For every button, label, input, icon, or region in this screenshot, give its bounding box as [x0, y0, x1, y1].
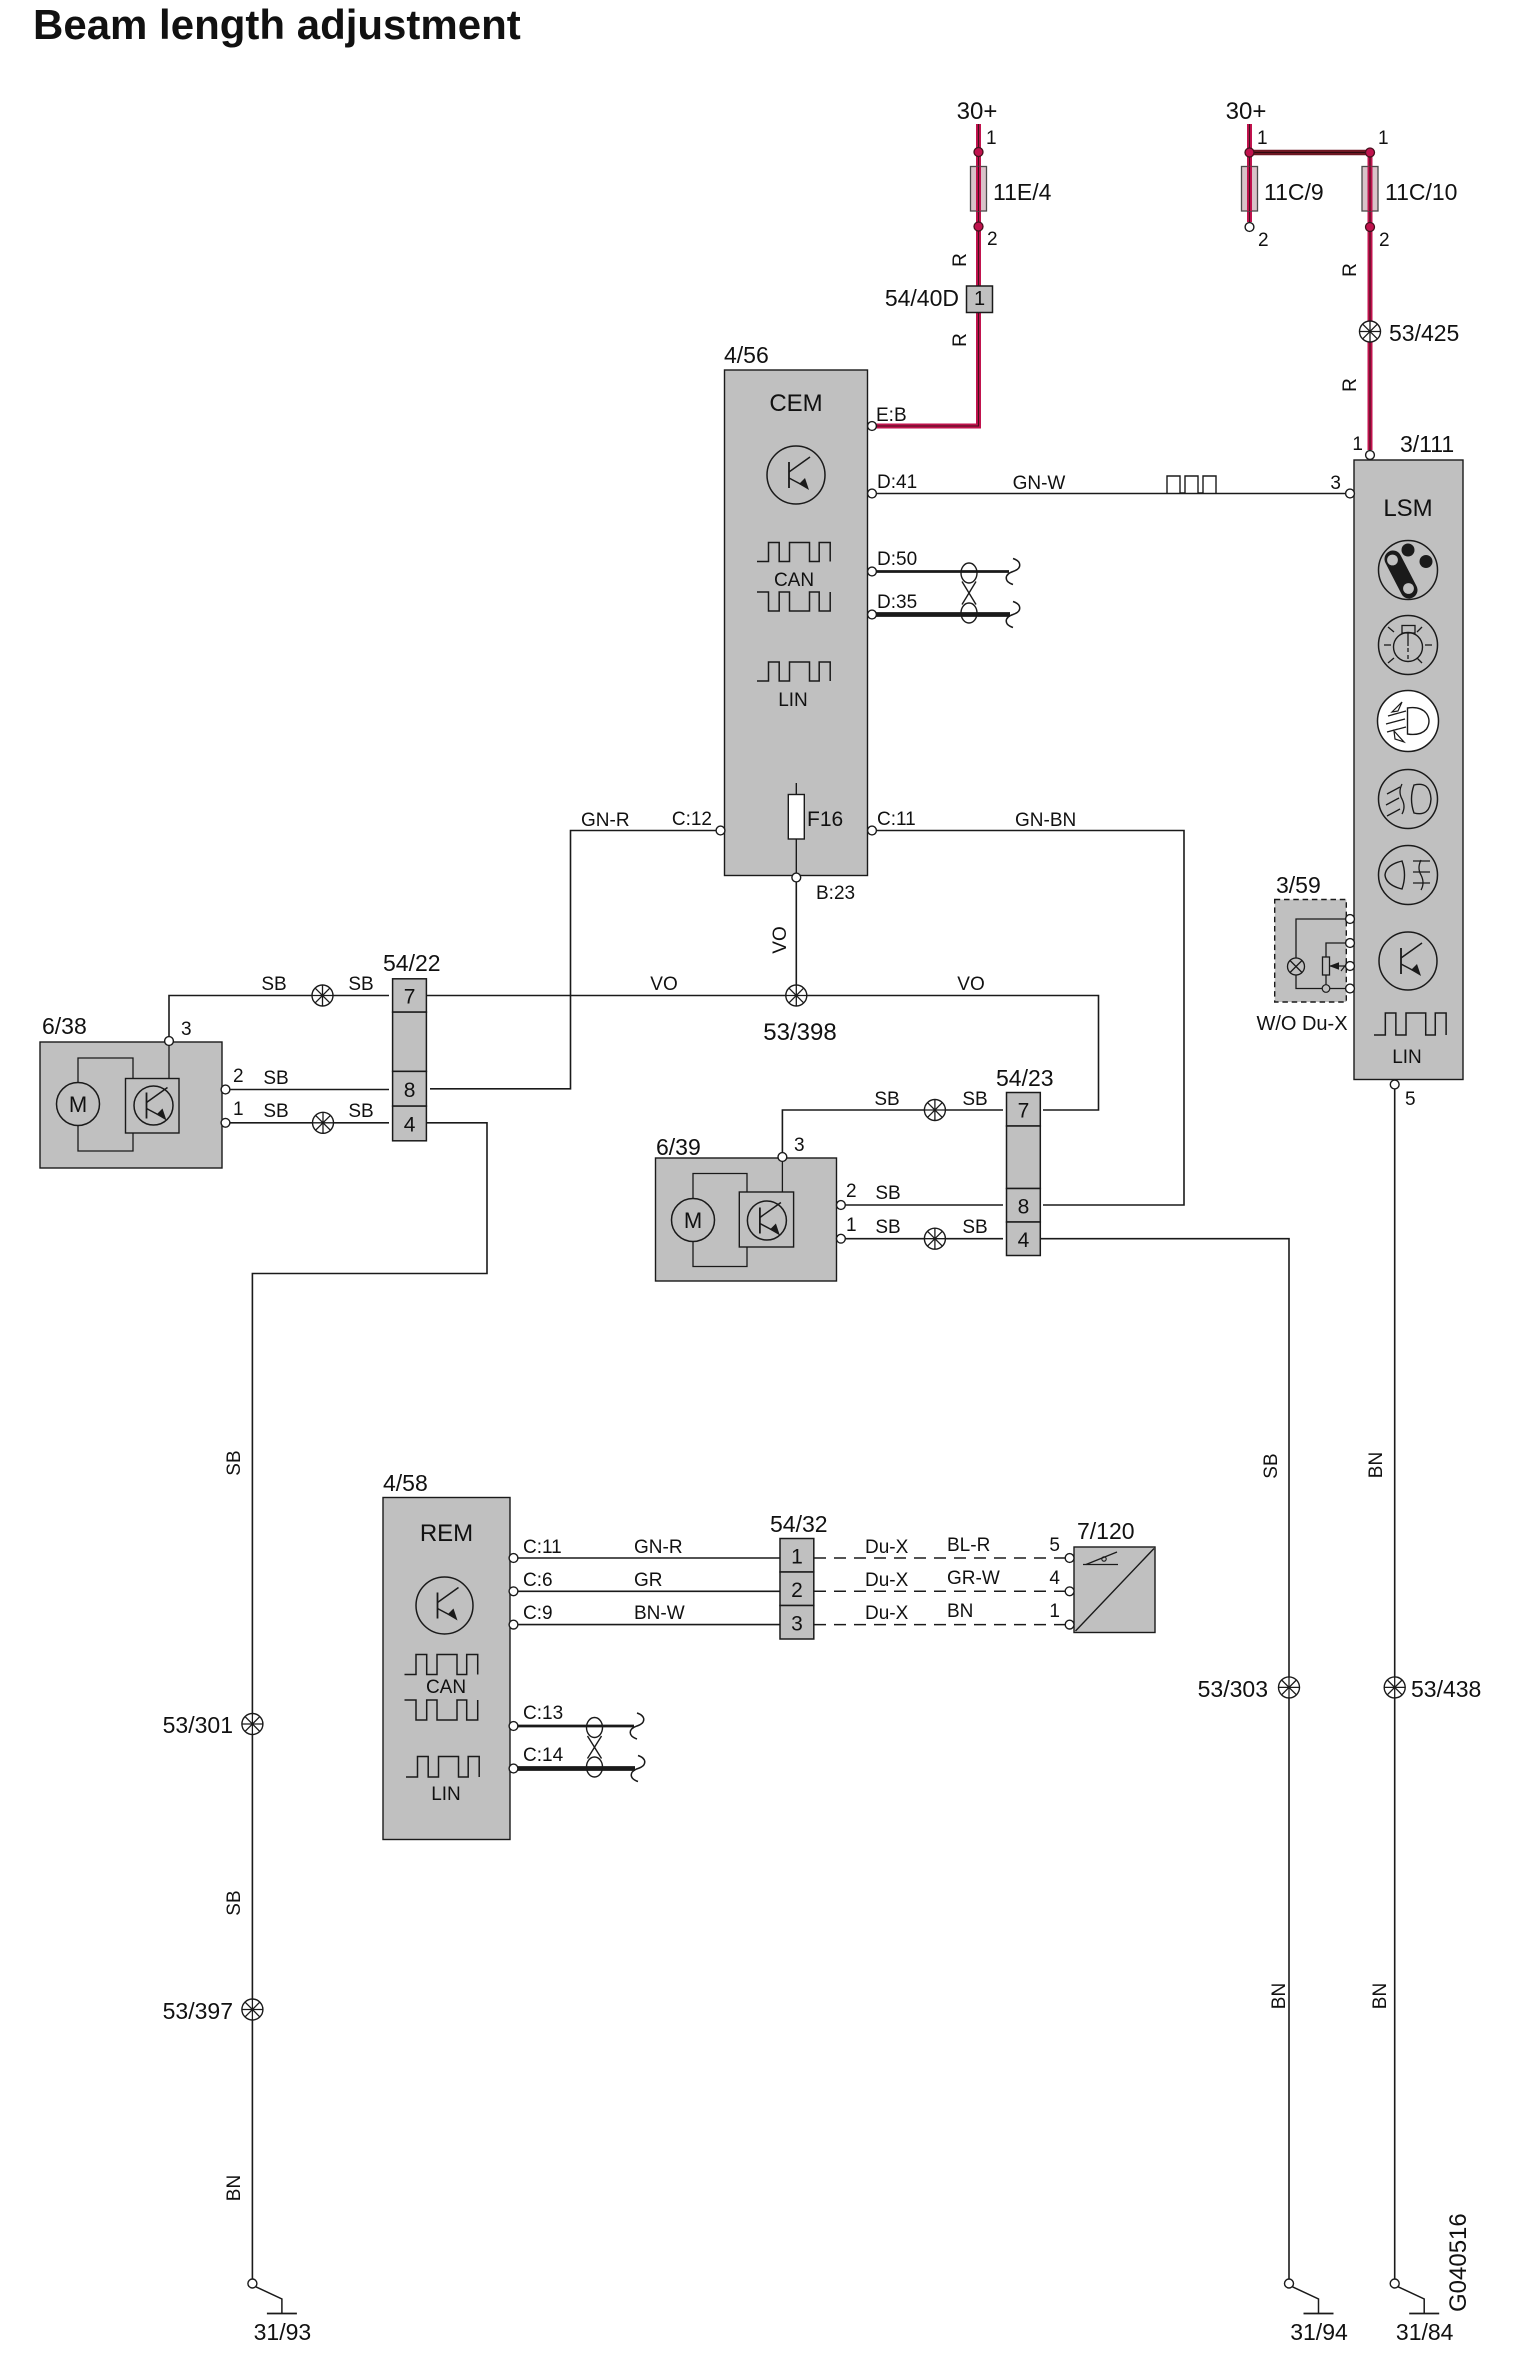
pin D:50 of CEM with CAN stub [874, 570, 1009, 573]
wire SB from 6/39 pin 1 to connector 54/23 pin 4 [844, 1238, 1003, 1240]
svg-text:3: 3 [1330, 473, 1341, 494]
ECU CEM 4/56 box [725, 370, 868, 876]
svg-text:1: 1 [233, 1099, 244, 1120]
dashed wire Du-X BL-R from 54/32 pin 1 to 7/120 pin 5 [814, 1557, 1065, 1559]
pin 1 of LSM [1366, 451, 1375, 460]
pin C:11 of CEM [868, 826, 877, 835]
wire GN-R from CEM C:12 to connector 54/22 pin 8 [430, 831, 716, 1089]
svg-text:D:50: D:50 [877, 549, 917, 570]
svg-text:BN: BN [1366, 1452, 1387, 1478]
wire GR from REM C:6 to connector 54/32 pin 2 [518, 1590, 780, 1592]
svg-text:54/23: 54/23 [996, 1065, 1054, 1091]
splice on SB wire 6/39 pin3 [924, 1100, 945, 1121]
svg-text:3: 3 [794, 1135, 805, 1156]
svg-text:2: 2 [846, 1181, 857, 1202]
svg-text:8: 8 [1018, 1195, 1030, 1218]
svg-text:GN-W: GN-W [1013, 473, 1066, 494]
svg-text:7/120: 7/120 [1077, 1518, 1135, 1544]
svg-text:11C/9: 11C/9 [1264, 179, 1324, 205]
svg-text:3/111: 3/111 [1400, 431, 1454, 457]
wire SB from 6/38 pin 1 to connector 54/22 pin 4 [229, 1122, 389, 1124]
svg-text:2: 2 [1379, 230, 1390, 251]
svg-text:53/301: 53/301 [163, 1712, 233, 1738]
transistor box in 6/39 [739, 1192, 793, 1247]
svg-text:C:13: C:13 [523, 1703, 563, 1724]
pin C:6 of REM [509, 1587, 518, 1596]
wire BN from LSM pin 5 to ground 31/84 [1394, 1089, 1396, 2279]
svg-text:31/84: 31/84 [1396, 2319, 1454, 2345]
wire SB from 6/38 pin 3 to connector 54/22 pin 7 [169, 996, 389, 1038]
splice 53/301 [242, 1714, 263, 1735]
svg-text:C:14: C:14 [523, 1745, 564, 1766]
svg-text:SB: SB [263, 1068, 288, 1089]
svg-text:GN-BN: GN-BN [1015, 810, 1076, 831]
LIN symbol inside LSM [1374, 1013, 1446, 1035]
splice on SB wire 6/39 pin1 [924, 1228, 945, 1249]
pin E:B of CEM [868, 422, 877, 431]
fuse 11C/9 [1242, 167, 1258, 212]
svg-text:SB: SB [224, 1890, 245, 1915]
splice 53/303 [1279, 1677, 1300, 1698]
pin 1 of 11C/9 [1245, 148, 1254, 157]
parking light icon [1379, 616, 1438, 675]
rear fog light icon [1379, 846, 1438, 905]
dashed wire Du-X GR-W from 54/32 pin 2 to 7/120 pin 4 [814, 1590, 1065, 1592]
svg-text:Du-X: Du-X [865, 1603, 909, 1624]
wire SB from 54/23 pin 4 to ground chain 31/94 [1040, 1239, 1289, 2279]
twisted pair symbol REM [587, 1718, 603, 1738]
pin C:12 of CEM [716, 826, 725, 835]
svg-text:4: 4 [1049, 1568, 1060, 1589]
svg-text:REM: REM [420, 1520, 473, 1547]
pin 1 of 11C/10 [1366, 148, 1375, 157]
wire SB from 6/39 pin 2 to connector 54/23 pin 8 [844, 1204, 1003, 1206]
svg-text:4/56: 4/56 [724, 342, 769, 368]
splice 53/398 [786, 985, 807, 1006]
svg-text:1: 1 [791, 1545, 803, 1568]
LIN symbol inside REM [406, 1757, 479, 1778]
svg-text:CAN: CAN [774, 570, 814, 591]
svg-text:F16: F16 [807, 808, 843, 831]
svg-text:Beam length adjustment: Beam length adjustment [33, 1, 521, 48]
wire GN-W from CEM D:41 to LSM pin 3 [876, 493, 1346, 495]
svg-text:54/32: 54/32 [770, 1511, 828, 1537]
wire R supply to fuse 11E/4 and CEM E:B [876, 124, 979, 426]
svg-text:31/94: 31/94 [1290, 2319, 1348, 2345]
pin B:23 of CEM [792, 873, 801, 882]
svg-text:4/58: 4/58 [383, 1470, 428, 1496]
svg-text:SB: SB [224, 1450, 245, 1475]
svg-text:B:23: B:23 [816, 883, 855, 904]
svg-text:E:B: E:B [876, 405, 907, 426]
svg-text:1: 1 [974, 288, 985, 310]
transistor symbol inside LSM [1379, 932, 1437, 990]
pin D:35 of CEM with CAN stub [874, 612, 1010, 617]
svg-text:SB: SB [263, 1101, 288, 1122]
svg-text:7: 7 [1018, 1099, 1030, 1122]
position sensor 7/120 box [1074, 1547, 1155, 1633]
ground 31/93 [248, 2279, 257, 2288]
pin 1 of 7/120 [1065, 1620, 1074, 1629]
pin C:11 of REM [509, 1554, 518, 1563]
svg-text:1: 1 [1352, 434, 1363, 455]
svg-text:2: 2 [791, 1579, 803, 1602]
fuse 11C/10 [1362, 167, 1378, 212]
svg-text:11E/4: 11E/4 [993, 179, 1052, 205]
svg-text:3: 3 [181, 1019, 192, 1040]
svg-text:SB: SB [875, 1183, 900, 1204]
pin 5 of LSM [1390, 1080, 1399, 1089]
svg-text:LIN: LIN [778, 690, 808, 711]
transistor symbol inside CEM [767, 446, 825, 504]
splice on SB wire pin1 [313, 1112, 334, 1133]
svg-text:BN: BN [224, 2175, 245, 2201]
break symbol C:13 [630, 1713, 644, 1739]
pin 3 of 6/39 [778, 1153, 787, 1162]
svg-text:C:9: C:9 [523, 1603, 553, 1624]
svg-text:53/425: 53/425 [1389, 320, 1459, 346]
svg-text:CEM: CEM [769, 390, 822, 417]
fuse 11E/4 [971, 167, 987, 212]
svg-text:7: 7 [404, 985, 416, 1008]
motor symbol in 6/38 [57, 1083, 100, 1126]
pulse signal symbol on GN-W wire [1167, 476, 1216, 493]
svg-text:LIN: LIN [431, 1784, 461, 1805]
svg-text:G040516: G040516 [1445, 2213, 1472, 2312]
CAN bus symbol inside CEM [757, 543, 830, 562]
internal leads 6/38 [78, 1058, 133, 1083]
wire BN-W from REM C:9 to connector 54/32 pin 3 [518, 1624, 780, 1626]
motor symbol in 6/39 [672, 1199, 715, 1242]
svg-text:VO: VO [650, 974, 677, 995]
svg-text:C:11: C:11 [523, 1537, 562, 1558]
svg-text:6/38: 6/38 [42, 1013, 87, 1039]
twisted pair symbol CAN CEM [961, 563, 977, 583]
svg-text:54/22: 54/22 [383, 950, 441, 976]
junction in 3/59 [1322, 985, 1330, 993]
ground 31/94 [1285, 2279, 1294, 2288]
svg-text:3/59: 3/59 [1276, 872, 1321, 898]
svg-text:C:6: C:6 [523, 1570, 553, 1591]
lamp symbol in 3/59 [1288, 958, 1305, 975]
svg-text:6/39: 6/39 [656, 1134, 701, 1160]
transistor box in 6/38 [126, 1079, 180, 1134]
svg-text:SB: SB [1261, 1453, 1282, 1478]
svg-text:GN-R: GN-R [634, 1537, 683, 1558]
svg-text:SB: SB [874, 1089, 899, 1110]
pin 3 of LSM [1346, 489, 1355, 498]
wire VO from CEM B:23 to splice 53/398 [795, 882, 797, 996]
break symbol D:35 [1006, 602, 1020, 628]
svg-text:4: 4 [1018, 1229, 1030, 1252]
pin 5 of 7/120 [1065, 1554, 1074, 1563]
svg-text:31/93: 31/93 [254, 2319, 312, 2345]
svg-text:M: M [69, 1092, 87, 1117]
break symbol D:50 [1006, 559, 1020, 585]
svg-text:VO: VO [770, 926, 791, 953]
connector 54/23 [1007, 1093, 1041, 1127]
svg-text:VO: VO [957, 974, 984, 995]
svg-text:LIN: LIN [1392, 1047, 1422, 1068]
svg-text:30+: 30+ [957, 98, 998, 125]
wires inside 3/59 to LSM pins [1296, 919, 1350, 958]
headlamp levelling motor 6/38 box [40, 1042, 222, 1168]
pin 3 of 6/38 [165, 1037, 174, 1046]
svg-text:2: 2 [233, 1066, 244, 1087]
fuse F16 inside CEM [795, 783, 797, 877]
splice on SB wire [312, 985, 333, 1006]
svg-text:Du-X: Du-X [865, 1570, 909, 1591]
pin 2 of 11C/10 [1366, 223, 1375, 232]
lamp unit 3/59 (W/O Du-X) dashed box [1275, 900, 1347, 1003]
svg-text:53/398: 53/398 [763, 1019, 836, 1046]
wire SB from 54/22 pin 4 to ground chain [252, 1123, 487, 2279]
pin C:9 of REM [509, 1620, 518, 1629]
pin 2 of 11C/9 (open) [1245, 223, 1254, 232]
svg-text:SB: SB [348, 974, 373, 995]
wire GN-BN from CEM C:11 to connector 54/23 pin 8 [876, 831, 1184, 1206]
svg-text:54/40D: 54/40D [885, 285, 959, 311]
svg-text:Du-X: Du-X [865, 1537, 909, 1558]
svg-text:C:12: C:12 [672, 809, 712, 830]
LSM left pins for 3/59 [1346, 915, 1355, 924]
wire SB from 6/39 pin 3 to connector 54/23 pin 7 [782, 1110, 1003, 1153]
wire dark link between fuse feeds [1250, 150, 1371, 156]
svg-text:53/397: 53/397 [163, 1998, 233, 2024]
LIN symbol inside CEM [757, 662, 830, 681]
wire VO from 54/22 pin 7 to splice 53/398 and 54/23 pin 7 [426, 996, 1098, 1111]
ground 31/84 [1390, 2279, 1399, 2288]
pin 2 of 6/39 [837, 1201, 846, 1210]
svg-text:D:35: D:35 [877, 592, 917, 613]
pin 1 of 11E/4 [974, 148, 983, 157]
svg-text:D:41: D:41 [877, 472, 917, 493]
svg-text:GR: GR [634, 1570, 663, 1591]
svg-text:1: 1 [1049, 1601, 1060, 1622]
ECU REM 4/58 box [383, 1498, 510, 1840]
svg-text:5: 5 [1049, 1535, 1060, 1556]
transistor symbol inside REM [416, 1577, 473, 1634]
pin C:14 of REM with LIN stub [516, 1766, 635, 1771]
svg-text:53/303: 53/303 [1198, 1676, 1268, 1702]
headlight beam adjust icon (white) [1378, 691, 1439, 752]
potentiometer in 3/59 [1323, 957, 1330, 975]
wire R supply to fuse 11C/9 [1247, 124, 1252, 222]
pin D:41 of CEM [868, 489, 877, 498]
svg-text:2: 2 [987, 229, 998, 250]
svg-text:R: R [1340, 378, 1361, 392]
svg-text:1: 1 [846, 1215, 857, 1236]
internal leads 6/39 [693, 1174, 747, 1199]
svg-text:4: 4 [404, 1113, 416, 1136]
svg-text:11C/10: 11C/10 [1385, 179, 1457, 205]
svg-text:53/438: 53/438 [1411, 1676, 1481, 1702]
svg-text:1: 1 [986, 128, 997, 149]
CAN bus symbol inside REM [405, 1655, 478, 1675]
level icon in 7/120 [1083, 1564, 1118, 1566]
svg-text:SB: SB [875, 1217, 900, 1238]
svg-text:SB: SB [348, 1101, 373, 1122]
svg-text:BN: BN [1370, 1983, 1391, 2009]
svg-text:M: M [684, 1208, 702, 1233]
splice 53/425 [1360, 321, 1381, 342]
pin 4 of 7/120 [1065, 1587, 1074, 1596]
svg-text:8: 8 [404, 1079, 416, 1102]
wire SB from 6/38 pin 2 to connector 54/22 pin 8 [229, 1089, 389, 1091]
splice 53/397 [242, 1999, 263, 2020]
svg-text:R: R [950, 253, 971, 267]
pin 1 of 6/39 [837, 1234, 846, 1243]
svg-text:CAN: CAN [426, 1677, 466, 1698]
svg-text:SB: SB [962, 1217, 987, 1238]
wire GN-R from REM C:11 to connector 54/32 pin 1 [518, 1557, 780, 1559]
svg-text:2: 2 [1258, 230, 1269, 251]
svg-text:30+: 30+ [1226, 98, 1267, 125]
pin 1 of 6/38 [221, 1118, 230, 1127]
splice 53/438 [1384, 1677, 1405, 1698]
svg-text:W/O Du-X: W/O Du-X [1256, 1013, 1347, 1035]
svg-text:SB: SB [261, 974, 286, 995]
module LSM 3/111 box [1354, 460, 1463, 1080]
front fog light icon [1379, 770, 1438, 829]
svg-text:R: R [1340, 263, 1361, 277]
svg-text:5: 5 [1405, 1089, 1416, 1110]
svg-text:3: 3 [791, 1612, 803, 1635]
svg-text:1: 1 [1257, 128, 1268, 149]
connector 54/40D pin 1 [967, 286, 993, 313]
svg-text:BN-W: BN-W [634, 1603, 685, 1624]
svg-text:BN: BN [947, 1601, 973, 1622]
svg-text:GN-R: GN-R [581, 810, 630, 831]
connector 54/32 [780, 1539, 814, 1573]
svg-text:C:11: C:11 [877, 809, 916, 830]
svg-text:LSM: LSM [1383, 495, 1432, 522]
arrow to potentiometer wiper [1330, 965, 1350, 967]
svg-text:BN: BN [1269, 1983, 1290, 2009]
dashed wire Du-X BN from 54/32 pin 3 to 7/120 pin 1 [814, 1624, 1065, 1626]
pin C:13 of REM with LIN stub [516, 1725, 634, 1728]
svg-text:GR-W: GR-W [947, 1568, 1000, 1589]
headlight switch knob icon [1379, 541, 1438, 600]
svg-text:1: 1 [1378, 128, 1389, 149]
svg-text:SB: SB [962, 1089, 987, 1110]
break symbol C:14 [631, 1756, 645, 1782]
svg-text:R: R [950, 333, 971, 347]
wire R from link to LSM pin 1 [1368, 153, 1373, 451]
pin 2 of 6/38 [221, 1085, 230, 1094]
connector 54/22 [393, 979, 427, 1012]
headlamp levelling motor 6/39 box [656, 1158, 837, 1281]
pin 2 of 11E/4 [974, 222, 983, 231]
svg-text:BL-R: BL-R [947, 1535, 990, 1556]
